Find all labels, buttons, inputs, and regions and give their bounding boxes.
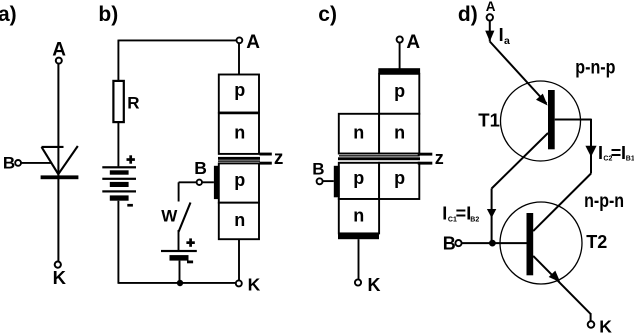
wire T1 base horizontal — [555, 119, 591, 121]
p2 region box (panel b) — [219, 163, 259, 202]
svg-text:W: W — [161, 206, 178, 225]
terminal B (panel a) — [15, 160, 21, 166]
anode contact bar (panel c) — [378, 68, 420, 74]
terminal B (panel d) — [455, 240, 461, 246]
wire gate (panel c) — [323, 180, 334, 182]
wire anode-cathode (panel a) — [57, 64, 59, 262]
battery E1 plate long 2 — [102, 178, 136, 180]
svg-text:=: = — [456, 204, 467, 224]
gate contact bar (panel b) — [214, 166, 218, 199]
emitter arrow T1 — [536, 94, 548, 106]
svg-text:p: p — [394, 81, 405, 101]
wire T2 emitter vertical — [590, 313, 592, 321]
thyristor V1 top bar — [42, 146, 64, 148]
svg-text:I: I — [442, 204, 447, 224]
svg-text:c): c) — [318, 3, 337, 26]
wire battery E2 to bottom (panel b) — [179, 261, 181, 283]
wire T2 emitter diagonal — [533, 256, 590, 314]
svg-text:n-p-n: n-p-n — [584, 191, 624, 212]
wire switch upper (panel b) — [178, 182, 180, 201]
junction Z right tick upper (panel c) — [418, 153, 433, 156]
wire cathode to K (panel c) — [358, 239, 360, 279]
gate contact bar (panel c) — [334, 166, 340, 198]
svg-text:K: K — [599, 317, 612, 333]
transistor T1 circle — [501, 81, 581, 161]
wire B to T2 base — [462, 242, 527, 244]
junction Z thin line (panel c) — [339, 155, 420, 156]
terminal K (panel a) — [55, 262, 61, 268]
wire top (panel b) — [118, 39, 236, 41]
current label Ia — [499, 25, 510, 47]
battery E1 minus label — [127, 204, 133, 207]
svg-text:A: A — [406, 32, 420, 53]
svg-text:a: a — [504, 35, 510, 47]
svg-text:p: p — [353, 168, 364, 188]
current arrow Ic2 — [585, 146, 596, 157]
junction Z right tick lower (panel c) — [418, 162, 433, 165]
svg-text:T1: T1 — [478, 110, 500, 131]
junction Z right tick lower (panel b) — [260, 162, 272, 165]
svg-text:A: A — [246, 32, 260, 53]
terminal A (panel a) — [56, 58, 62, 64]
wire switch lower (panel b) — [178, 230, 180, 250]
terminal A (panel b) — [237, 37, 243, 43]
thyristor V1 left diagonal — [42, 147, 59, 174]
svg-text:n: n — [353, 123, 364, 143]
thyristor V1 right diagonal — [58, 146, 78, 174]
terminal K (panel d) — [588, 321, 595, 328]
current label Ic1=Ib2 — [442, 204, 479, 224]
current arrow Ic1 — [487, 209, 496, 218]
wire T1 base vertical — [590, 119, 592, 174]
svg-text:b): b) — [98, 3, 118, 26]
wire gate (panel a) — [21, 162, 52, 164]
svg-text:n: n — [234, 122, 245, 142]
terminal A (panel d) — [487, 14, 493, 20]
svg-text:I: I — [499, 25, 504, 45]
junction Z thick line (panel c) — [338, 157, 420, 160]
battery E1 plate short 1 — [110, 170, 129, 174]
svg-text:B: B — [3, 153, 15, 172]
wire battery to bottom (panel b) — [117, 201, 119, 284]
battery E2 plus label — [186, 238, 194, 246]
battery E1 plate short 3 — [110, 195, 129, 200]
wire gate left (panel b) — [179, 181, 197, 183]
transistor T2 base bar — [527, 213, 534, 275]
junction Z thick line (panel b) — [218, 157, 260, 160]
junction Z thin line (panel b) — [218, 160, 260, 161]
p1 region box (panel c) — [379, 74, 419, 114]
current label Ic2=Ib1 — [598, 143, 634, 163]
wire emitter T1 diagonal — [490, 42, 547, 104]
junction dot bottom (panel b) — [177, 280, 183, 286]
wire A down (panel d) — [489, 21, 491, 42]
svg-text:B: B — [194, 158, 207, 178]
wire left upper (panel b) — [117, 40, 119, 81]
battery E1 plate short 2 — [110, 182, 129, 187]
n1 region box (panel b) — [219, 113, 259, 154]
svg-text:a): a) — [0, 3, 17, 26]
junction Z right tick upper (panel b) — [260, 153, 272, 156]
wire A to anode bar (panel c) — [399, 43, 401, 69]
battery E2 minus label — [187, 261, 193, 264]
battery E2 plate long — [161, 250, 197, 252]
wire T1 collector vertical — [491, 189, 493, 244]
svg-text:=: = — [611, 143, 622, 163]
battery E2 plate short — [170, 255, 189, 261]
svg-text:A: A — [486, 0, 496, 14]
svg-text:d): d) — [458, 3, 478, 26]
battery E1 plate long 1 — [102, 166, 136, 168]
wire gate right (panel b) — [202, 181, 214, 183]
current arrow Ia — [485, 31, 494, 42]
wire T1 collector diagonal — [492, 133, 548, 189]
svg-text:p-n-p: p-n-p — [575, 58, 615, 79]
svg-text:n: n — [394, 123, 405, 143]
wire stack to A (panel b) — [238, 43, 240, 74]
svg-text:K: K — [248, 275, 261, 295]
resistor R — [113, 81, 123, 122]
terminal B (panel c) — [317, 178, 323, 184]
thyristor V1 cathode bar — [41, 175, 79, 179]
terminal B (panel b) — [197, 180, 202, 185]
svg-text:B: B — [312, 160, 324, 179]
battery E1 plate long 3 — [102, 190, 136, 192]
p1 region box (panel b) — [219, 75, 259, 113]
emitter arrow T2 — [549, 271, 561, 283]
svg-text:I: I — [598, 143, 603, 163]
svg-text:K: K — [53, 267, 67, 288]
p2 right region box (panel c) — [379, 163, 419, 199]
wire T2 collector diagonal — [533, 174, 591, 232]
wire bottom (panel b) — [118, 282, 235, 284]
terminal K (panel b) — [236, 280, 242, 286]
svg-text:T2: T2 — [586, 232, 607, 252]
terminal A (panel c) — [397, 36, 403, 42]
transistor T2 circle — [500, 202, 582, 284]
wire stack to K (panel b) — [238, 239, 240, 280]
switch W blade — [179, 203, 191, 233]
svg-text:p: p — [234, 80, 245, 100]
svg-text:p: p — [394, 168, 405, 188]
junction dot (panel d) — [489, 240, 496, 247]
n1 right region box (panel c) — [379, 114, 419, 154]
transistor T1 base bar — [548, 90, 555, 149]
svg-text:B1: B1 — [626, 155, 634, 162]
svg-text:z: z — [435, 148, 444, 168]
svg-text:z: z — [274, 148, 284, 169]
svg-text:K: K — [368, 275, 381, 295]
svg-text:B: B — [443, 234, 456, 254]
cathode contact bar (panel c) — [338, 233, 379, 239]
svg-text:n: n — [353, 205, 364, 225]
terminal K (panel c) — [355, 279, 361, 285]
svg-text:B2: B2 — [470, 217, 479, 224]
p2 left region box (panel c) — [339, 163, 379, 199]
n2 region box (panel b) — [219, 203, 259, 240]
svg-text:n: n — [234, 210, 245, 230]
svg-text:R: R — [127, 94, 139, 113]
wire resistor to battery (panel b) — [117, 123, 119, 166]
svg-text:p: p — [234, 170, 245, 190]
n2 region box (panel c) — [339, 199, 379, 233]
n1 left region box (panel c) — [339, 114, 379, 154]
battery E1 plus label — [127, 155, 135, 163]
